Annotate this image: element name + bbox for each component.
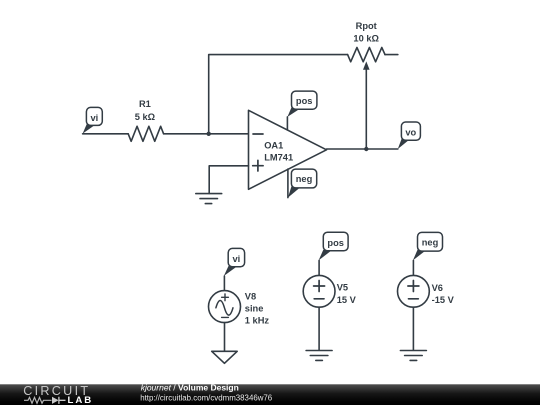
- ground symbol (V6): [400, 351, 426, 361]
- flag vo: [398, 137, 410, 149]
- flag neg (V6): [413, 250, 425, 261]
- flag pos (op-amp): [287, 107, 299, 117]
- svg-text:http://circuitlab.com/cvdmm383: http://circuitlab.com/cvdmm38346w76: [140, 393, 273, 402]
- flag pos (V5): [319, 250, 331, 261]
- svg-text:vi: vi: [91, 113, 99, 123]
- logo resistor squiggle: [24, 397, 52, 403]
- svg-text:LM741: LM741: [264, 153, 293, 163]
- ground symbol (V8, triangle): [212, 351, 238, 363]
- op-amp neg supply stub: [287, 169, 289, 198]
- svg-text:5 kΩ: 5 kΩ: [135, 112, 156, 122]
- wire op-amp noninverting input to ground: [209, 166, 248, 194]
- voltage source V5: [303, 275, 335, 307]
- logo diode: [52, 397, 59, 404]
- svg-text:neg: neg: [296, 174, 313, 184]
- flag neg (op-amp): [288, 185, 300, 198]
- voltage source V8 (sine): [209, 291, 241, 323]
- node junction dot output: [364, 147, 368, 151]
- svg-text:R1: R1: [139, 99, 151, 109]
- svg-text:pos: pos: [296, 96, 313, 106]
- wire op-amp output: [327, 148, 398, 150]
- op-amp pos supply stub: [286, 117, 288, 130]
- op-amp plus symbol: [253, 160, 263, 171]
- svg-text:15 V: 15 V: [337, 295, 357, 305]
- ground symbol (V5): [306, 351, 332, 361]
- svg-text:10 kΩ: 10 kΩ: [353, 33, 379, 43]
- svg-text:-15 V: -15 V: [432, 295, 455, 305]
- svg-text:V5: V5: [337, 283, 348, 293]
- voltage source V6: [398, 275, 430, 307]
- svg-text:neg: neg: [422, 238, 439, 248]
- wire neg flag to V6: [412, 260, 414, 275]
- svg-text:Rpot: Rpot: [356, 21, 377, 31]
- Rpot wiper arrow: [363, 61, 370, 69]
- op-amp OA1: [249, 110, 327, 189]
- flag vi (V8 source): [224, 266, 236, 276]
- wire V5 to ground: [318, 307, 320, 350]
- footer bar: [0, 384, 540, 405]
- svg-text:OA1: OA1: [264, 140, 283, 150]
- flag vi (input): [83, 124, 95, 134]
- wire R1 to op-amp inverting input: [164, 133, 249, 135]
- svg-text:V6: V6: [432, 283, 443, 293]
- resistor R1: [128, 126, 163, 141]
- svg-text:V8: V8: [245, 291, 256, 301]
- potentiometer Rpot: [348, 48, 385, 62]
- svg-text:kjournet / Volume Design: kjournet / Volume Design: [141, 383, 239, 393]
- node junction dot: [207, 132, 211, 136]
- svg-text:pos: pos: [327, 238, 344, 248]
- wire V6 to ground: [412, 307, 414, 350]
- wire pos flag to V5: [318, 260, 320, 275]
- ground symbol (op-amp): [196, 194, 222, 204]
- svg-text:LAB: LAB: [68, 395, 94, 405]
- svg-text:vi: vi: [233, 254, 241, 264]
- svg-text:1 kHz: 1 kHz: [245, 316, 270, 326]
- wire feedback up and across: [209, 55, 348, 134]
- wire vi flag to V8: [223, 276, 225, 291]
- wire vi to R1: [83, 133, 129, 135]
- wire V8 to ground: [224, 323, 226, 352]
- op-amp minus symbol: [253, 133, 263, 135]
- svg-text:vo: vo: [405, 127, 416, 137]
- svg-text:sine: sine: [245, 304, 264, 314]
- Rpot right lead: [385, 54, 398, 56]
